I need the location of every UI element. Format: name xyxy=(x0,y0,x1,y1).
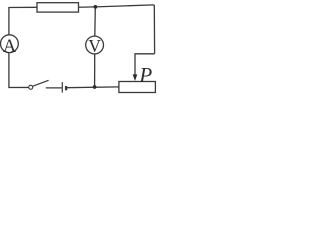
battery negative plate xyxy=(65,86,67,90)
wire voltmeter branch upper xyxy=(94,7,97,36)
wire battery to rheostat xyxy=(67,86,119,89)
wire switch to battery xyxy=(46,87,62,89)
ammeter A1 xyxy=(1,35,19,53)
wire right vertical xyxy=(153,5,155,54)
wire voltmeter branch lower xyxy=(94,54,96,87)
wire top-right segment (slopes up) xyxy=(79,5,155,7)
switch S lever xyxy=(32,80,48,86)
svg-text:A: A xyxy=(3,37,17,57)
wire left vertical + top-left segment xyxy=(9,7,37,35)
wire step to slider xyxy=(135,54,155,76)
voltmeter V1 xyxy=(86,36,104,54)
rheostat P body xyxy=(119,82,155,93)
switch S pivot xyxy=(29,85,33,89)
node junction bottom xyxy=(93,85,97,89)
slider arrowhead xyxy=(133,74,138,81)
svg-text:P: P xyxy=(138,63,152,87)
node junction top xyxy=(94,5,98,9)
resistor R1 xyxy=(37,3,79,12)
svg-text:V: V xyxy=(88,36,101,56)
battery positive plate xyxy=(61,82,63,93)
wire ammeter to bottom-left corner to switch xyxy=(9,53,29,88)
